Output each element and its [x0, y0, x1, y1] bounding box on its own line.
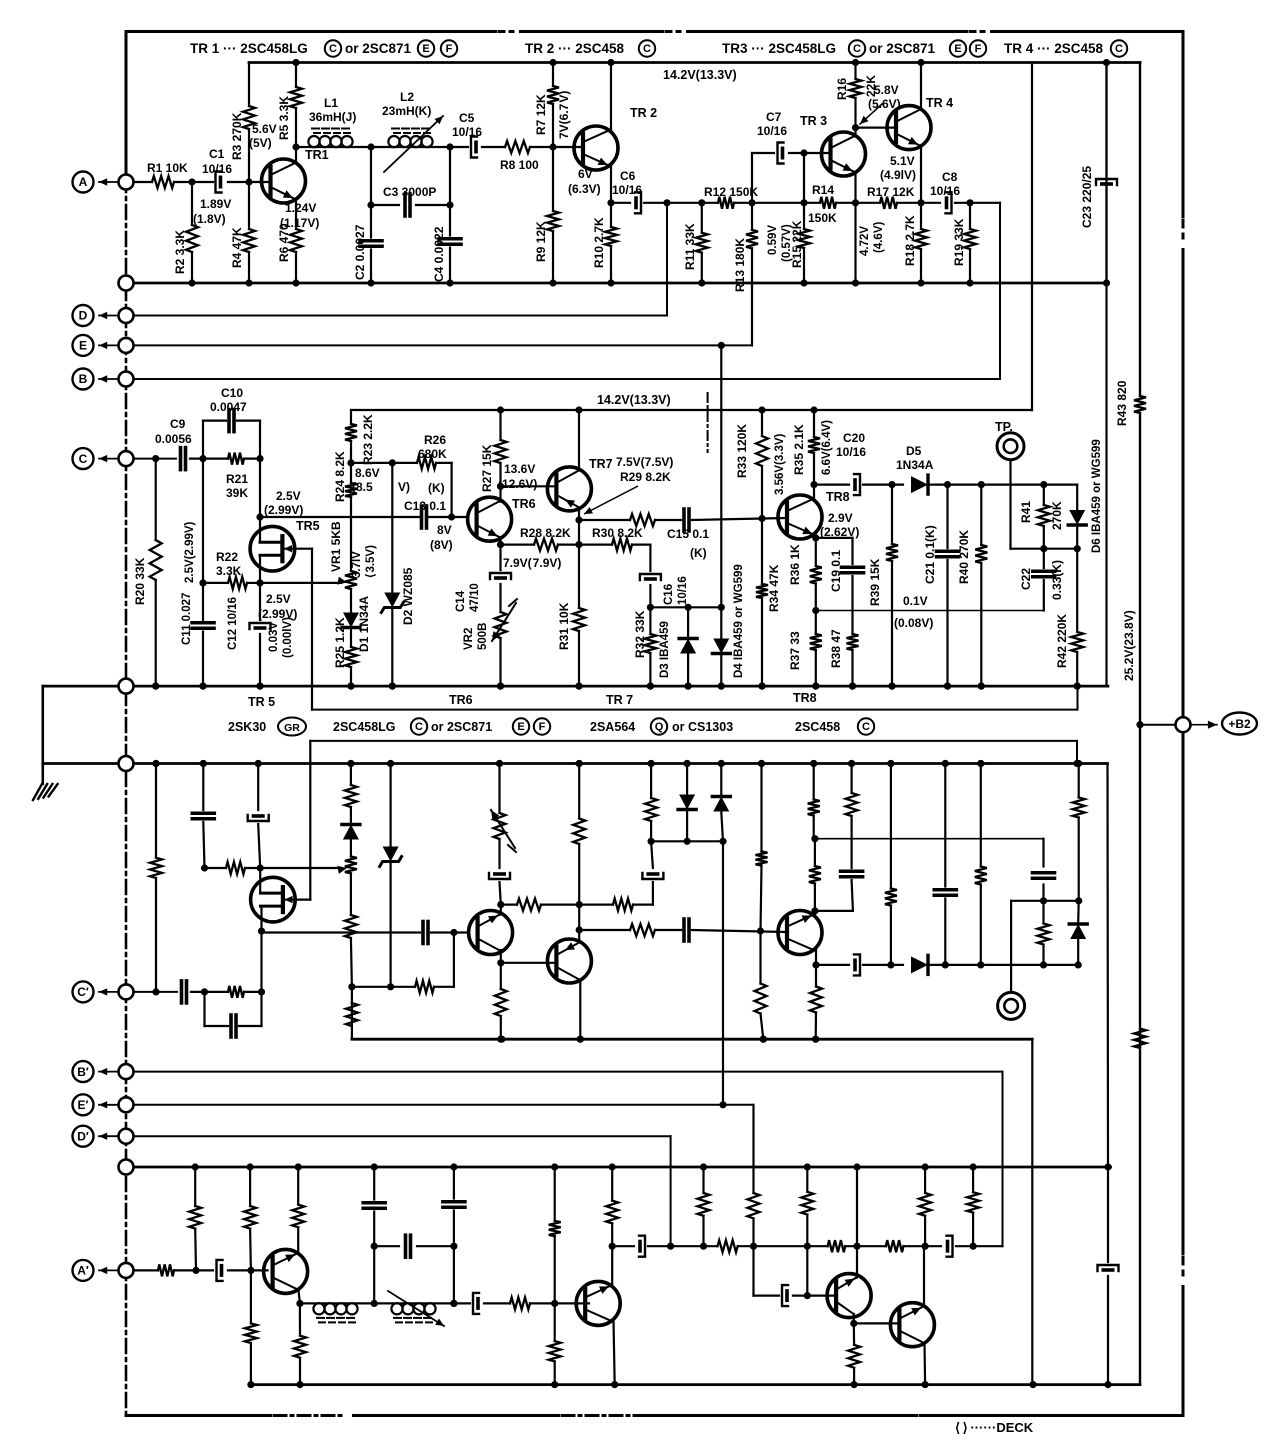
- wire: TR8p collector: [815, 950, 817, 965]
- svg-text:1.24V: 1.24V: [285, 201, 316, 215]
- wire: record B+ rail: [251, 1383, 1140, 1386]
- svg-text:C7: C7: [766, 110, 782, 124]
- capacitor C3-prime: [374, 1245, 399, 1247]
- wire: TR7 collector: [578, 508, 580, 545]
- svg-text:0.0047: 0.0047: [210, 400, 247, 414]
- svg-text:R4 47K: R4 47K: [230, 227, 244, 268]
- node 8.6V-prime: [348, 983, 355, 990]
- wire: TR8 emitter: [815, 536, 817, 538]
- fet TR5-prime: [251, 877, 296, 922]
- svg-text:C21 0.1(K): C21 0.1(K): [923, 525, 937, 584]
- svg-text:R16: R16: [835, 78, 849, 100]
- svg-text:VR2: VR2: [463, 628, 475, 650]
- svg-text:R30 8.2K: R30 8.2K: [592, 526, 643, 540]
- transistor TR1: [262, 159, 306, 203]
- svg-text:B: B: [79, 372, 88, 386]
- arrow 7.5V: [584, 486, 638, 514]
- resistor R4-prime: [250, 1270, 252, 1323]
- wire: TR4 collector: [920, 63, 922, 110]
- zener D2-prime: [390, 764, 392, 847]
- svg-text:R21: R21: [226, 472, 248, 486]
- svg-text:D3 IBA459: D3 IBA459: [659, 621, 671, 678]
- svg-text:R36 1K: R36 1K: [788, 544, 802, 585]
- capacitor C12-prime: [257, 764, 259, 811]
- svg-text:(1.17V): (1.17V): [280, 216, 319, 230]
- svg-text:or 2SC871: or 2SC871: [431, 720, 492, 734]
- resistor R5-prime: [299, 1303, 301, 1335]
- svg-text:1N34A: 1N34A: [896, 458, 934, 472]
- resistor R15-prime: [806, 1167, 808, 1192]
- capacitor C1 10/16: [216, 172, 222, 193]
- svg-text:R9 12K: R9 12K: [534, 221, 548, 262]
- terminal C-prime: [119, 984, 134, 999]
- resistor R33-prime: [759, 931, 761, 984]
- capacitor C22-prime: [1042, 885, 1044, 901]
- wire: row E: [126, 344, 752, 346]
- resistor R41 270K: [1043, 485, 1045, 505]
- resistor R43-prime: [1134, 1029, 1146, 1048]
- resistor R6 470: [295, 200, 297, 230]
- wire: C23' column: [1107, 1167, 1109, 1262]
- diode D1 1N34A: [343, 613, 359, 628]
- wire: TR5p gate riser: [295, 898, 310, 900]
- svg-text:2.9V: 2.9V: [828, 511, 853, 525]
- capacitor C9-prime: [180, 981, 184, 1003]
- node C1p-base: [247, 1267, 254, 1274]
- inductor L1-prime: [300, 1302, 374, 1304]
- capacitor C20 10/16: [814, 484, 849, 486]
- node C9-R20: [152, 455, 159, 462]
- resistor R7 12K: [552, 63, 554, 87]
- capacitor C11-prime: [202, 764, 204, 811]
- wire: top B+ rail: [249, 61, 1140, 64]
- wire: TR6 emitter: [499, 537, 501, 545]
- svg-text:C19 0.1: C19 0.1: [829, 550, 843, 592]
- resistor R14-prime: [828, 1240, 846, 1252]
- wire: 838.7 line: [815, 838, 1044, 840]
- node record supply riser: [1029, 1381, 1036, 1388]
- svg-text:(5.6V): (5.6V): [868, 97, 901, 111]
- capacitor C21 0.1K: [946, 485, 948, 548]
- node R33-R34: [758, 515, 765, 522]
- wire: lower ground rail: [43, 762, 1108, 765]
- svg-text:R37 33: R37 33: [788, 631, 802, 670]
- wire: TR5p drain: [260, 906, 262, 931]
- svg-text:10/16: 10/16: [612, 183, 642, 197]
- svg-text:R19 33K: R19 33K: [952, 218, 966, 266]
- svg-text:C1: C1: [209, 147, 225, 161]
- resistor R9 12K: [552, 147, 554, 211]
- fet TR5: [250, 526, 295, 571]
- capacitor C3 3000P: [371, 204, 399, 206]
- zener D2 WZ085: [391, 463, 393, 592]
- svg-text:R41: R41: [1019, 501, 1033, 523]
- svg-text:E: E: [517, 721, 524, 733]
- svg-text:10/16: 10/16: [930, 184, 960, 198]
- node R1-C1: [188, 178, 195, 185]
- node R12p-R13p: [750, 1243, 757, 1250]
- terminal +B2: [1136, 721, 1143, 728]
- capacitor C14 47/10: [499, 545, 501, 570]
- wire: row B: [126, 378, 1000, 380]
- svg-text:14.2V(13.3V): 14.2V(13.3V): [663, 68, 737, 82]
- capacitor C10 0.0047: [202, 421, 204, 459]
- resistor R38-prime: [846, 793, 858, 816]
- svg-text:2.5V: 2.5V: [276, 489, 301, 503]
- svg-text:2SA564: 2SA564: [590, 720, 635, 734]
- svg-text:R39 15K: R39 15K: [868, 558, 882, 606]
- wire: R21-R22 column: [202, 459, 204, 620]
- node dots record supply rail: [498, 1036, 505, 1043]
- svg-text:2SC458LG: 2SC458LG: [333, 720, 396, 734]
- wire: row C-prime components: [191, 991, 205, 993]
- svg-text:10/16: 10/16: [757, 124, 787, 138]
- resistor R30 8.2K: [612, 539, 632, 551]
- resistor R27 15K: [499, 410, 501, 440]
- terminal D: [119, 308, 134, 323]
- capacitor C7 10/16: [752, 152, 774, 154]
- wire: input A-prime line: [134, 1269, 159, 1271]
- resistor bias up x196: [194, 1167, 196, 1206]
- resistor R12-prime: [718, 1240, 738, 1252]
- wire: to D6: [1044, 484, 1077, 486]
- svg-text:R31 10K: R31 10K: [557, 602, 571, 650]
- svg-text:(8V): (8V): [430, 538, 453, 552]
- capacitor C16 10/16: [640, 574, 661, 580]
- wire: row D: [126, 315, 667, 317]
- wire: supply line 14.2V: [351, 409, 1032, 411]
- svg-text:TP.: TP.: [995, 420, 1013, 434]
- wire: TR5p drain riser: [260, 931, 262, 992]
- svg-text:680K: 680K: [418, 447, 447, 461]
- svg-text:500B: 500B: [477, 623, 489, 651]
- svg-text:TR 4 ··· 2SC458: TR 4 ··· 2SC458: [1004, 41, 1104, 56]
- svg-text:A′: A′: [77, 1264, 89, 1278]
- resistor R20 33K: [155, 459, 157, 540]
- svg-text:R18 2.7K: R18 2.7K: [903, 215, 917, 266]
- svg-text:3.56V(3.3V): 3.56V(3.3V): [774, 433, 786, 495]
- resistor R26-prime: [415, 981, 434, 993]
- node dots lower ground rail: [152, 760, 159, 767]
- wire: 8.6V line: [351, 462, 417, 464]
- inductor L1 36mH: [296, 146, 371, 148]
- node L1p-L2p: [371, 1300, 378, 1307]
- svg-text:TR7: TR7: [589, 457, 613, 471]
- wire: row C: [134, 458, 177, 460]
- svg-text:C3 3000P: C3 3000P: [383, 185, 436, 199]
- wire: ground bus right lower: [1106, 764, 1109, 1168]
- wire: R41p-D6p link: [1044, 900, 1079, 902]
- resistor R1 10K: [152, 176, 174, 188]
- resistor R35-prime: [815, 965, 817, 987]
- svg-text:C9: C9: [170, 417, 186, 431]
- resistor R17 12K: [880, 197, 897, 209]
- wire: 0.1V line: [816, 610, 1044, 612]
- svg-text:C: C: [79, 452, 88, 466]
- transistor TR8-prime: [778, 911, 822, 955]
- svg-text:R34 47K: R34 47K: [767, 564, 781, 612]
- svg-text:R35 2.1K: R35 2.1K: [792, 424, 806, 475]
- svg-text:R14: R14: [812, 183, 834, 197]
- resistor R42 220K: [1076, 549, 1078, 632]
- resistor R7-prime: [554, 1167, 556, 1221]
- resistor R36-prime: [814, 884, 816, 911]
- wire: to 2.5V node: [259, 459, 261, 517]
- resistor R41-prime: [1042, 901, 1044, 924]
- resistor R13-prime: [752, 1105, 754, 1193]
- test point TP: [997, 433, 1024, 460]
- wire: C13p to TR6p: [431, 931, 468, 933]
- node C8-R19: [966, 199, 973, 206]
- terminal A-prime: [119, 1263, 134, 1278]
- resistor R28 8.2K: [501, 543, 535, 545]
- resistor R19 33K: [969, 203, 971, 229]
- terminal B: [119, 372, 134, 387]
- resistor R19-prime: [972, 1167, 974, 1192]
- capacitor C1-prime: [217, 1260, 223, 1281]
- svg-text:C8: C8: [942, 170, 958, 184]
- resistor R21-prime: [228, 986, 244, 998]
- svg-text:C: C: [329, 43, 337, 55]
- svg-text:TR 3: TR 3: [800, 114, 827, 128]
- svg-text:C6: C6: [620, 169, 636, 183]
- transistor TR2: [574, 126, 618, 170]
- wire: TR7 emitter top: [578, 410, 580, 471]
- diode D5-prime: [911, 956, 928, 973]
- wire: TR1p collector: [299, 1290, 300, 1303]
- resistor R33 120K: [761, 410, 763, 436]
- node C7p-R15p: [804, 1292, 811, 1299]
- node C9p-R20p: [152, 988, 159, 995]
- wire: row 202.8: [611, 202, 630, 204]
- svg-text:(1.8V): (1.8V): [193, 212, 226, 226]
- svg-text:⟨ 3.5V): ⟨ 3.5V): [364, 545, 377, 578]
- node R12-R13: [748, 199, 755, 206]
- wire: record supply rail: [352, 1038, 1032, 1041]
- wire: TR3p-TR4p base: [854, 1322, 899, 1324]
- resistor R25-prime: [345, 785, 357, 807]
- wire: TPp stem: [1010, 901, 1012, 993]
- wire: TR4 emitter: [920, 146, 922, 203]
- diode D3-prime: [686, 764, 688, 795]
- svg-text:6V: 6V: [578, 167, 593, 181]
- resistor R12 150K: [718, 197, 734, 209]
- svg-text:Q: Q: [655, 721, 664, 733]
- transistor TR8: [778, 495, 822, 539]
- svg-text:(2.62V): (2.62V): [820, 525, 859, 539]
- svg-text:R42 220K: R42 220K: [1055, 614, 1069, 668]
- svg-text:C: C: [1115, 43, 1123, 55]
- node dots mid ground rail: [152, 683, 159, 690]
- wire: row D-prime: [126, 1135, 671, 1137]
- capacitor C23 220/25: [1105, 63, 1107, 177]
- svg-text:R43 820: R43 820: [1115, 380, 1129, 426]
- svg-text:6.6V(6.4V): 6.6V(6.4V): [821, 420, 833, 475]
- svg-text:or CS1303: or CS1303: [672, 720, 733, 734]
- transistor TR6-prime: [469, 911, 513, 955]
- svg-text:R38 47: R38 47: [829, 629, 843, 668]
- capacitor C10-prime: [203, 992, 205, 1026]
- svg-text:C′: C′: [77, 985, 89, 999]
- variable resistor VR2-prime: [494, 813, 506, 839]
- wire: TR2 emitter: [610, 166, 612, 203]
- diode D4-prime: [720, 764, 722, 797]
- wire: TR3p emitter: [856, 1167, 858, 1278]
- terminal B-prime: [119, 1064, 134, 1079]
- node C16 bottom: [647, 604, 654, 611]
- resistor R32 33K: [649, 607, 651, 634]
- svg-text:14.2V(13.3V): 14.2V(13.3V): [597, 393, 671, 407]
- resistor R8-prime: [510, 1297, 530, 1309]
- svg-text:TR 1 ··· 2SC458LG: TR 1 ··· 2SC458LG: [190, 41, 308, 56]
- svg-text:(12.6V): (12.6V): [498, 477, 537, 491]
- wire: TR6p collector: [500, 950, 502, 963]
- resistor R16 22K: [854, 63, 856, 80]
- svg-text:VR1 5KB: VR1 5KB: [329, 521, 343, 572]
- svg-text:R20 33K: R20 33K: [133, 557, 147, 605]
- svg-text:10/16: 10/16: [677, 576, 689, 605]
- node R21p left: [201, 988, 208, 995]
- variable resistor VR2 500B: [495, 612, 507, 638]
- svg-text:5.8V: 5.8V: [874, 83, 899, 97]
- terminal gnd record: [119, 1160, 134, 1175]
- svg-text:(4.6V): (4.6V): [873, 222, 885, 253]
- svg-text:5.6V: 5.6V: [252, 122, 277, 136]
- resistor R24 8.2K: [350, 463, 352, 483]
- capacitor C7-prime: [754, 1294, 780, 1296]
- resistor R23 2.2K: [350, 410, 352, 424]
- resistor R35 2.1K: [813, 410, 815, 437]
- wire: TR3 emitter: [854, 172, 856, 283]
- svg-text:R7 12K: R7 12K: [534, 94, 548, 135]
- terminal gnd top: [119, 276, 134, 291]
- svg-text:0.1V: 0.1V: [903, 594, 928, 608]
- resistor R14 150K: [820, 197, 836, 209]
- svg-text:2SC458: 2SC458: [795, 720, 840, 734]
- svg-text:R3 270K: R3 270K: [230, 112, 244, 160]
- capacitor C4 0.0022: [449, 147, 451, 236]
- diode D1-prime: [343, 825, 359, 840]
- resistor R2 3.3K: [191, 182, 193, 225]
- inductor L2-prime: [374, 1302, 454, 1304]
- wire: TR2p collector: [614, 1321, 615, 1385]
- wire: D3p-D4p link: [651, 840, 723, 842]
- svg-text:(4.9lV): (4.9lV): [880, 168, 916, 182]
- terminal D-prime: [119, 1129, 134, 1144]
- wire: TR2 collector: [610, 63, 612, 131]
- resistor R1-prime: [158, 1264, 174, 1276]
- transistor TR2-prime: [576, 1281, 620, 1325]
- svg-text:L1: L1: [324, 96, 338, 110]
- capacitor C8-prime: [947, 1236, 953, 1257]
- resistor R29-prime: [579, 929, 630, 931]
- svg-text:C12 10/16: C12 10/16: [227, 597, 239, 650]
- node C8p-R19p: [970, 1243, 977, 1250]
- wire: B+ bus right: [1139, 63, 1141, 397]
- node 8.6V: [347, 459, 354, 466]
- capacitor C23-prime: [1098, 1265, 1119, 1271]
- capacitor C8 10/16: [946, 192, 952, 213]
- svg-text:R26: R26: [424, 433, 446, 447]
- resistor R13 180K: [751, 203, 753, 230]
- svg-text:7V(6.7 V): 7V(6.7 V): [557, 91, 571, 139]
- svg-text:0.59V: 0.59V: [767, 225, 779, 255]
- svg-text:47/10: 47/10: [469, 583, 481, 612]
- svg-text:2.5V(2.99V): 2.5V(2.99V): [184, 521, 196, 583]
- resistor R34 47K: [761, 519, 763, 585]
- wire: TR5 source: [259, 555, 261, 583]
- capacitor C6 10/16: [635, 192, 641, 213]
- svg-text:R11 33K: R11 33K: [683, 223, 697, 270]
- svg-text:R23 2.2K: R23 2.2K: [361, 414, 375, 465]
- svg-text:10/16: 10/16: [452, 125, 482, 139]
- resistor R34-prime: [760, 764, 762, 852]
- node C6-rowD: [663, 199, 670, 206]
- svg-text:F: F: [975, 43, 982, 55]
- svg-text:or 2SC871: or 2SC871: [345, 41, 412, 56]
- wire: D3-D4 link: [650, 606, 721, 608]
- resistor R40-prime: [980, 764, 982, 867]
- node C20-D5: [888, 481, 895, 488]
- svg-text:D4 IBA459 or WG599: D4 IBA459 or WG599: [733, 564, 745, 678]
- arrow: L2p variable: [388, 1291, 444, 1326]
- wire: mute bus lower: [310, 740, 1077, 742]
- wire: TR4p collector: [923, 1343, 926, 1385]
- resistor R26 680K: [417, 457, 436, 469]
- capacitor C21-prime: [944, 764, 946, 887]
- node R8p-R7p: [551, 1300, 558, 1307]
- wire: TR3p collector: [853, 1314, 855, 1323]
- svg-text:D2 WZ085: D2 WZ085: [401, 567, 415, 625]
- svg-text:39K: 39K: [226, 486, 248, 500]
- svg-text:150K: 150K: [808, 211, 837, 225]
- wire: TR5p source: [259, 868, 261, 893]
- svg-text:R22: R22: [216, 550, 238, 564]
- wire: TR1 collector: [295, 147, 297, 163]
- resistor R8 100: [505, 141, 530, 153]
- wire: 8.6Vp line: [352, 986, 415, 988]
- resistor R37 33: [815, 611, 817, 635]
- svg-text:or 2SC871: or 2SC871: [869, 41, 936, 56]
- node C1-base: [245, 178, 252, 185]
- wire: to D6p: [1044, 964, 1079, 966]
- svg-text:R40 270K: R40 270K: [957, 530, 971, 584]
- svg-text:23mH(K): 23mH(K): [382, 104, 431, 118]
- resistor R30-prime: [613, 899, 633, 911]
- wire: 2.5V line: [260, 516, 419, 518]
- capacitor C15 0.1: [682, 509, 686, 531]
- wire: TR3-TR4 base link: [856, 126, 897, 128]
- resistor R24-prime: [351, 938, 352, 987]
- capacitor C16-prime: [642, 873, 663, 879]
- node C16p: [648, 838, 655, 845]
- capacitor C11 0.027: [192, 621, 214, 625]
- terminal E: [119, 338, 134, 353]
- transistor TR3: [822, 132, 866, 176]
- terminal C: [119, 451, 134, 466]
- svg-text:TR6: TR6: [449, 693, 473, 707]
- resistor R6-prime: [292, 1205, 304, 1228]
- resistor R4 47K: [248, 182, 250, 229]
- svg-text:TR 2: TR 2: [630, 106, 657, 120]
- svg-text:B′: B′: [77, 1065, 89, 1079]
- transistor TR1-prime: [264, 1249, 308, 1293]
- svg-text:E: E: [422, 43, 429, 55]
- svg-text:0.03V: 0.03V: [268, 622, 280, 652]
- resistor R11 33K: [701, 203, 703, 233]
- resistor R15 22K: [803, 153, 805, 229]
- wire: TR6p base line: [262, 931, 421, 933]
